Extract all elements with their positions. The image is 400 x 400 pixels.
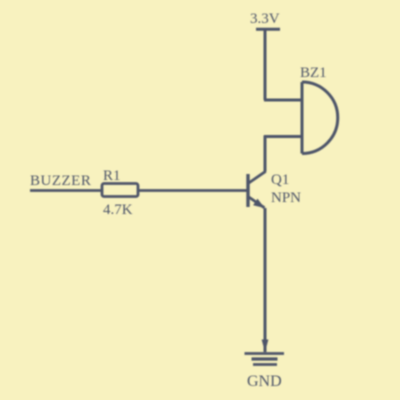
svg-text:R1: R1	[103, 168, 121, 184]
svg-text:Q1: Q1	[271, 172, 289, 188]
svg-text:3.3V: 3.3V	[250, 11, 280, 27]
buzzer BZ1 arc	[302, 82, 338, 154]
svg-text:GND: GND	[247, 373, 282, 390]
buzzer BZ1 flat side	[301, 82, 304, 154]
wire base left segment	[30, 189, 102, 192]
wire buzzer bottom lead	[264, 135, 302, 138]
svg-text:4.7K: 4.7K	[103, 202, 133, 218]
resistor R1 body	[102, 184, 138, 197]
wire power to top of buzzer branch	[264, 29, 267, 100]
wire base right segment	[138, 189, 248, 192]
transistor Q1 base bar	[246, 174, 249, 207]
ground bar 1	[245, 352, 285, 355]
transistor Q1 emitter arrow	[253, 199, 264, 208]
svg-text:BUZZER: BUZZER	[30, 173, 91, 189]
svg-text:BZ1: BZ1	[300, 65, 327, 81]
svg-text:NPN: NPN	[271, 190, 301, 206]
ground bar 3	[253, 363, 277, 366]
transistor Q1 emitter diagonal	[248, 197, 265, 208]
wire emitter to ground	[264, 208, 267, 352]
ground arrow	[262, 340, 269, 353]
power bar symbol	[256, 28, 280, 31]
wire collector vertical	[264, 136, 267, 172]
wire buzzer top lead	[264, 99, 302, 102]
ground bar 2	[252, 357, 278, 360]
transistor Q1 collector diagonal	[248, 171, 266, 183]
